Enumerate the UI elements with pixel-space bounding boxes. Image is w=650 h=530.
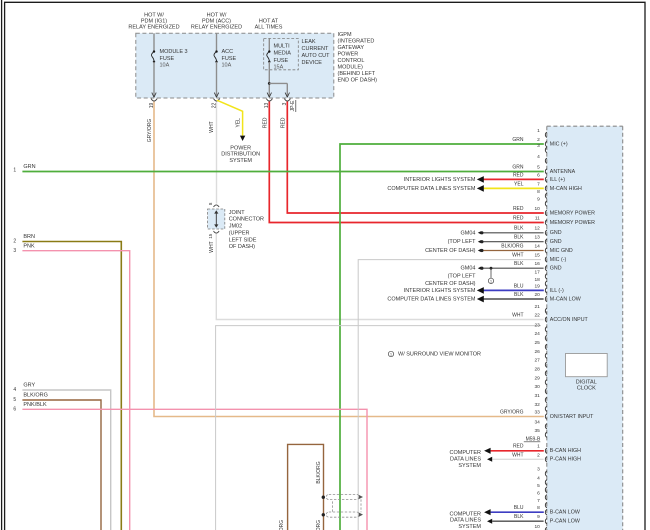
svg-text:MIC GND: MIC GND [550, 248, 573, 254]
svg-text:MODULE): MODULE) [338, 64, 364, 70]
svg-text:(TOP LEFT: (TOP LEFT [448, 273, 477, 279]
svg-text:30: 30 [534, 384, 540, 390]
wire YEL branch to POWER DISTRIBUTION SYSTEM [217, 100, 245, 141]
svg-text:GATEWAY: GATEWAY [338, 45, 365, 51]
svg-text:PNK/BLK: PNK/BLK [23, 402, 47, 408]
connector M59-B pin 8 [514, 505, 580, 515]
svg-text:GND: GND [550, 239, 562, 245]
svg-text:8: 8 [208, 202, 213, 205]
connector M59-B pin 4 [537, 475, 547, 485]
svg-text:32: 32 [534, 402, 540, 408]
connector bracket fuse box pin 22 [214, 99, 220, 101]
svg-text:MULTI: MULTI [274, 44, 291, 50]
connector M59-A pin 25 [534, 340, 546, 350]
connector M59-A pin 20 [514, 292, 581, 303]
connector M59-B pin 3 [537, 467, 547, 477]
svg-text:DATA LINES: DATA LINES [450, 456, 481, 462]
connector M59-A pin 16 [514, 261, 562, 272]
option box 2 [216, 326, 541, 530]
label GM04 (pin 12) [461, 230, 476, 236]
IGPM fuse box U1 [136, 33, 334, 98]
svg-text:BLU: BLU [514, 283, 524, 289]
svg-text:31: 31 [534, 393, 540, 399]
connector name M59-B [524, 436, 541, 442]
wire GRY/ORG from fuse 19 to pin 33 ON/START INPUT [154, 102, 544, 417]
label YEL rotated [236, 118, 242, 128]
svg-text:YEL: YEL [236, 118, 242, 128]
pin number 22 [211, 103, 217, 109]
svg-text:RED: RED [513, 444, 524, 450]
svg-text:GND: GND [550, 266, 562, 272]
svg-text:RELAY ENERGIZED: RELAY ENERGIZED [191, 24, 242, 30]
svg-text:BLK: BLK [514, 235, 524, 241]
svg-text:BLK/ORG: BLK/ORG [23, 393, 47, 399]
svg-text:LEAK: LEAK [302, 39, 316, 45]
connector M59-A pin 35 [534, 428, 546, 438]
svg-text:POWER: POWER [338, 51, 359, 57]
svg-text:5: 5 [537, 164, 540, 170]
wire BLK GND pin 12 to GM04 [478, 231, 544, 234]
svg-text:4: 4 [537, 154, 540, 160]
svg-text:4: 4 [13, 387, 16, 393]
svg-text:ACC: ACC [222, 49, 234, 55]
svg-text:7: 7 [537, 498, 540, 504]
svg-text:22: 22 [534, 312, 540, 318]
connector M59-A pin 10 [513, 206, 595, 217]
connector M59-A pin 30 [534, 384, 546, 394]
shield symbol lower [322, 512, 363, 517]
svg-text:M-CAN LOW: M-CAN LOW [550, 296, 581, 302]
label RED rotated (pin 13 wire) [262, 117, 268, 128]
wire RED from fuse 13 to pin 11 MEMORY POWER [269, 102, 544, 223]
fuse ACC FUSE 10A [214, 33, 237, 97]
svg-text:IGPM: IGPM [338, 32, 352, 38]
wire 2 BRN [22, 242, 121, 530]
svg-text:6: 6 [537, 172, 540, 178]
label CENTER OF DASH) (pin 14) [425, 248, 476, 254]
connector M59-A pin 27 [534, 358, 546, 368]
wire BLU B-CAN LOW to computer data lines system [484, 509, 544, 515]
svg-text:GRY/ORG: GRY/ORG [147, 119, 153, 143]
fuse MODULE 3 FUSE 10A [151, 33, 187, 97]
label JOINT CONNECTOR JM02 (UPPER LEFT SIDE OF DASH) [229, 210, 264, 250]
wire YEL M-CAN HIGH to computer data lines system [477, 185, 544, 192]
connector M59-A pin 17 [534, 269, 546, 279]
svg-text:GM04: GM04 [461, 266, 476, 272]
connector M59-A pin 6 [513, 172, 565, 183]
svg-text:WHT: WHT [512, 312, 523, 318]
svg-text:8: 8 [537, 189, 540, 195]
connector M59-A pin 14 [501, 243, 573, 254]
JM02 pin 8 [208, 202, 213, 205]
JM02 bottom connector arc [214, 231, 220, 233]
svg-text:GRY: GRY [23, 383, 35, 389]
connector M59-A pin 1 [537, 128, 547, 138]
svg-text:19: 19 [534, 283, 540, 289]
connector M59-A pin 5 [512, 164, 575, 175]
connector M59-A pin 28 [534, 366, 546, 376]
svg-text:CONTROL: CONTROL [338, 58, 365, 64]
wire 6 PNK/BLK [22, 409, 367, 530]
shield drain dashed link right [360, 499, 362, 512]
svg-text:DATA LINES: DATA LINES [450, 518, 481, 524]
svg-text:DISTRIBUTION: DISTRIBUTION [221, 152, 260, 158]
label BLK/ORG (left) [23, 393, 47, 399]
svg-text:DEVICE: DEVICE [302, 60, 323, 66]
note 1 W/ SURROUND VIEW MONITOR [388, 351, 481, 357]
svg-text:27: 27 [534, 358, 540, 364]
wire branch from MULTI MEDIA fuse to pin 3 [268, 82, 290, 97]
svg-text:SYSTEM: SYSTEM [229, 158, 252, 164]
svg-text:WHT: WHT [512, 252, 523, 258]
label COMPUTER DATA LINES SYSTEM (pin 20) [387, 296, 476, 302]
connector bracket fuse box pin 3 [284, 99, 290, 101]
label GRY/ORG rotated [147, 119, 153, 143]
svg-text:GRN: GRN [23, 164, 35, 170]
connector M59-A pin 32 [534, 402, 546, 412]
connector M59-B pin 5 [537, 483, 547, 493]
entry number 4 [13, 387, 16, 393]
svg-text:JOINT: JOINT [229, 210, 246, 216]
label (TOP LEFT (pin 13) [448, 239, 477, 245]
connector name JP-E [290, 100, 296, 112]
connector M59-A pin 18 [534, 277, 546, 287]
connector M59-A pin 19 [514, 283, 564, 294]
connector M59-B pin 7 [537, 498, 547, 508]
svg-text:18: 18 [534, 277, 540, 283]
JM02 pin 15 [208, 233, 213, 239]
svg-text:DIGITAL: DIGITAL [576, 379, 597, 385]
connector M59-A pin 3 [537, 143, 547, 153]
svg-text:GRY/ORG: GRY/ORG [500, 409, 524, 415]
svg-text:CURRENT: CURRENT [302, 46, 330, 52]
entry number 5 [13, 397, 16, 403]
wire WHT from JM02 to pin 22 ACC/ON INPUT [216, 234, 543, 320]
connector M59-A pin 22 [512, 312, 588, 323]
connector M59-A pin 11 [513, 215, 595, 226]
connector M59-A pin 12 [514, 226, 562, 237]
svg-text:COMPUTER DATA LINES SYSTEM: COMPUTER DATA LINES SYSTEM [387, 296, 476, 302]
svg-text:GM04: GM04 [461, 230, 476, 236]
connector M59-A pin 7 [514, 181, 582, 192]
svg-text:MEDIA: MEDIA [274, 51, 292, 57]
connector M59-B pin 9 [514, 514, 580, 524]
svg-text:W/ SURROUND VIEW MONITOR: W/ SURROUND VIEW MONITOR [398, 351, 481, 357]
label BLK/ORG rotated bottom left [279, 520, 285, 530]
svg-text:OF DASH): OF DASH) [229, 244, 255, 250]
svg-text:(BEHIND LEFT: (BEHIND LEFT [338, 71, 376, 77]
svg-text:(UPPER: (UPPER [229, 230, 250, 236]
svg-text:CLOCK: CLOCK [577, 386, 596, 392]
svg-text:2: 2 [537, 452, 540, 458]
svg-text:BRN: BRN [23, 234, 35, 240]
svg-text:16: 16 [534, 261, 540, 267]
entry number 1 [13, 168, 16, 174]
svg-text:RED: RED [513, 215, 524, 221]
svg-text:14: 14 [534, 243, 540, 249]
svg-text:JM02: JM02 [229, 224, 242, 230]
svg-text:GND: GND [550, 230, 562, 236]
svg-text:21: 21 [534, 304, 540, 310]
connector M59-A pin 15 [512, 252, 566, 263]
label (TOP LEFT (pin 16) [448, 273, 477, 279]
svg-text:ILL (+): ILL (+) [550, 177, 565, 183]
svg-text:BLK: BLK [514, 226, 524, 232]
wire GRN MIC (+) vertical to microphone [340, 144, 544, 530]
svg-text:5: 5 [13, 397, 16, 403]
head unit connector box [547, 126, 623, 530]
connector M59-A pin 4 [537, 154, 547, 164]
label LEAK CURRENT AUTO CUT DEVICE [302, 39, 331, 66]
svg-text:B-CAN HIGH: B-CAN HIGH [550, 448, 581, 454]
connector bracket fuse box pin 13 [266, 99, 272, 101]
svg-text:RED: RED [280, 117, 286, 128]
svg-text:11: 11 [535, 215, 540, 221]
label WHT rotated (lower) [209, 241, 215, 252]
wire BLK GND pin 16 to GM04 [478, 267, 544, 270]
joint connector JM02 [208, 209, 225, 229]
connector M59-B pin 6 [537, 490, 547, 500]
svg-text:P-CAN LOW: P-CAN LOW [550, 519, 580, 525]
connector M59-A pin 24 [534, 331, 546, 341]
svg-text:5: 5 [537, 483, 540, 489]
pin number 3 [282, 102, 288, 105]
svg-text:2: 2 [13, 239, 16, 245]
wire RED ILL (+) to interior lights system [477, 176, 544, 183]
svg-text:JP-E: JP-E [290, 100, 296, 112]
svg-text:FUSE: FUSE [222, 56, 237, 62]
svg-text:POWER: POWER [230, 145, 251, 151]
svg-text:ALL TIMES: ALL TIMES [255, 24, 283, 30]
label WHT rotated (upper) [209, 121, 215, 132]
svg-text:CONNECTOR: CONNECTOR [229, 217, 264, 223]
wire BLK M-CAN LOW to computer data lines system [477, 296, 544, 303]
pin number 19 [149, 103, 155, 109]
svg-text:1: 1 [13, 168, 16, 174]
svg-text:6: 6 [13, 406, 16, 412]
svg-text:WHT: WHT [209, 241, 215, 252]
label GM04 (pin 16) [461, 266, 476, 272]
wire 4 GRY [22, 390, 110, 530]
svg-text:CENTER OF DASH): CENTER OF DASH) [425, 281, 476, 287]
svg-text:3: 3 [537, 467, 540, 473]
connector M59-A pin 13 [514, 235, 562, 246]
connector M59-A pin 33 [500, 409, 594, 420]
svg-text:FUSE: FUSE [274, 58, 289, 64]
svg-text:17: 17 [534, 269, 540, 275]
svg-text:15: 15 [208, 233, 213, 239]
connector M59-B pin 2 [512, 452, 581, 462]
svg-text:34: 34 [534, 419, 540, 425]
label CENTER OF DASH) (pin 16) [425, 281, 476, 287]
svg-text:GRN: GRN [512, 164, 524, 170]
shield drain dashed link left [332, 501, 334, 512]
label GRN (left) [23, 164, 35, 170]
svg-text:8: 8 [537, 505, 540, 511]
svg-text:1: 1 [537, 444, 540, 450]
svg-text:END OF DASH): END OF DASH) [338, 77, 378, 83]
digital clock [566, 354, 608, 392]
svg-text:ANTENNA: ANTENNA [550, 169, 576, 175]
svg-text:23: 23 [534, 322, 540, 328]
svg-text:BLK: BLK [514, 261, 524, 267]
JM02 top connector arc [214, 205, 220, 207]
wire BLU ILL (-) to interior lights system [477, 287, 544, 294]
svg-text:YEL: YEL [514, 181, 524, 187]
label BRN (left) [23, 234, 35, 240]
svg-text:GRN: GRN [512, 137, 524, 143]
wire BLK/ORG microphone shield routing [288, 444, 324, 530]
wire BLK/ORG MIC GND pin 14 [478, 249, 544, 252]
svg-text:7: 7 [537, 181, 540, 187]
svg-text:26: 26 [534, 349, 540, 355]
svg-text:COMPUTER: COMPUTER [450, 450, 482, 456]
connector M59-A pin 2 [512, 137, 567, 148]
wire BLK P-CAN LOW to computer data lines system [487, 519, 544, 524]
connector bracket fuse box pin 19 [151, 99, 157, 101]
svg-text:PNK: PNK [23, 243, 35, 249]
svg-text:BLK: BLK [514, 292, 524, 298]
svg-text:M59-B: M59-B [526, 436, 541, 442]
svg-text:33: 33 [534, 409, 540, 415]
svg-text:BLK/ORG: BLK/ORG [501, 243, 523, 249]
wire RED B-CAN HIGH to computer data lines system [484, 448, 544, 454]
svg-text:WHT: WHT [209, 121, 215, 132]
svg-text:12: 12 [534, 226, 540, 232]
connector M59-A pin 8 [537, 189, 547, 199]
svg-text:MIC (+): MIC (+) [550, 141, 568, 147]
svg-text:LEFT SIDE: LEFT SIDE [229, 237, 257, 243]
svg-text:P-CAN HIGH: P-CAN HIGH [550, 457, 581, 463]
svg-text:SYSTEM: SYSTEM [458, 524, 481, 530]
svg-text:RELAY ENERGIZED: RELAY ENERGIZED [128, 24, 179, 30]
shield symbol upper [322, 494, 363, 499]
svg-text:1: 1 [390, 352, 392, 356]
svg-text:INTERIOR LIGHTS SYSTEM: INTERIOR LIGHTS SYSTEM [404, 177, 476, 183]
svg-text:B-CAN LOW: B-CAN LOW [550, 510, 580, 516]
header HOT W/ PDM (ACC) RELAY ENERGIZED [191, 12, 242, 30]
svg-text:1: 1 [537, 128, 540, 134]
svg-text:MODULE 3: MODULE 3 [160, 49, 188, 55]
label POWER DISTRIBUTION SYSTEM [221, 145, 260, 164]
wire 1 GRN to pin 5 ANTENNA [22, 171, 543, 173]
svg-text:10A: 10A [222, 63, 232, 69]
label BLK/ORG rotated (mic) [316, 461, 322, 483]
svg-text:3: 3 [537, 143, 540, 149]
connector M59-A pin 26 [534, 349, 546, 359]
svg-text:MIC (-): MIC (-) [550, 257, 567, 263]
label INTERIOR LIGHTS SYSTEM (pin 19) [404, 288, 476, 294]
svg-text:4: 4 [537, 475, 540, 481]
svg-text:COMPUTER: COMPUTER [450, 511, 482, 517]
wire 5 BLK/ORG [22, 400, 101, 530]
svg-text:MEMORY POWER: MEMORY POWER [550, 210, 595, 216]
svg-text:MEMORY POWER: MEMORY POWER [550, 220, 595, 226]
svg-text:9: 9 [537, 197, 540, 203]
svg-text:10: 10 [534, 206, 540, 212]
header HOT W/ PDM (IG1) RELAY ENERGIZED [128, 12, 179, 30]
entry number 3 [13, 248, 16, 254]
svg-text:BLK: BLK [514, 514, 524, 520]
wire RED from JP-E 3 to pin 10 MEMORY POWER [287, 102, 544, 214]
svg-text:6: 6 [537, 490, 540, 496]
svg-text:2: 2 [537, 137, 540, 143]
entry number 6 [13, 406, 16, 412]
label RED rotated (JP-E wire) [280, 117, 286, 128]
svg-text:3: 3 [13, 248, 16, 254]
svg-text:15A: 15A [274, 64, 284, 70]
page border outer line [1, 0, 3, 530]
svg-text:13: 13 [534, 235, 540, 241]
connector M59-B pin 1 [513, 444, 581, 455]
svg-text:24: 24 [534, 331, 540, 337]
svg-text:35: 35 [534, 428, 540, 434]
connector M59-A pin 9 [537, 197, 547, 207]
connector M59-A pin 21 [534, 304, 546, 314]
wire WHT P-CAN HIGH to computer data lines system [487, 457, 544, 462]
svg-text:29: 29 [534, 375, 540, 381]
option box 1 (surround view monitor) [358, 260, 541, 530]
label COMPUTER DATA LINES SYSTEM (M59-B 8/9) [450, 511, 482, 530]
label PNK/BLK (left) [23, 402, 47, 408]
svg-text:BLU: BLU [514, 505, 524, 511]
svg-text:COMPUTER DATA LINES SYSTEM: COMPUTER DATA LINES SYSTEM [387, 186, 476, 192]
label COMPUTER DATA LINES SYSTEM (pin 7) [387, 186, 476, 192]
svg-text:BLK/ORG: BLK/ORG [316, 461, 322, 483]
note flag 1 on pin 16 wire [488, 267, 493, 284]
wire 3 PNK [22, 251, 129, 530]
label GRY (left) [23, 383, 35, 389]
svg-text:15: 15 [534, 252, 540, 258]
svg-text:AUTO CUT: AUTO CUT [302, 53, 331, 59]
connector M59-A pin 34 [534, 419, 546, 429]
svg-text:BLK/ORG: BLK/ORG [316, 520, 322, 530]
svg-text:FUSE: FUSE [160, 56, 175, 62]
svg-text:(INTEGRATED: (INTEGRATED [338, 38, 375, 44]
svg-text:9: 9 [537, 514, 540, 520]
svg-text:CENTER OF DASH): CENTER OF DASH) [425, 248, 476, 254]
svg-text:(TOP LEFT: (TOP LEFT [448, 239, 477, 245]
svg-text:28: 28 [534, 366, 540, 372]
svg-text:SYSTEM: SYSTEM [458, 463, 481, 469]
svg-text:ILL (-): ILL (-) [550, 288, 564, 294]
label IGPM (INTEGRATED GATEWAY POWER CONTROL MODULE) (BEHIND LEFT END OF DASH) [338, 32, 378, 84]
label COMPUTER DATA LINES SYSTEM (M59-B 1/2) [450, 450, 482, 469]
leak current auto cut device box [264, 38, 299, 69]
connector M59-A pin 23 [534, 322, 546, 332]
label BLK/ORG rotated bottom right [316, 520, 322, 530]
svg-text:ON/START INPUT: ON/START INPUT [550, 414, 594, 420]
svg-text:RED: RED [513, 206, 524, 212]
svg-text:WHT: WHT [512, 452, 523, 458]
svg-text:20: 20 [534, 292, 540, 298]
connector M59-B pin 10 [534, 524, 546, 530]
svg-text:BLK/ORG: BLK/ORG [279, 520, 285, 530]
pin number 13 [264, 103, 270, 109]
entry number 2 [13, 239, 16, 245]
svg-text:M-CAN HIGH: M-CAN HIGH [550, 186, 582, 192]
wire BLK GND pin 13 to GM04 [478, 240, 544, 243]
svg-text:INTERIOR LIGHTS SYSTEM: INTERIOR LIGHTS SYSTEM [404, 288, 476, 294]
svg-text:10A: 10A [160, 63, 170, 69]
label INTERIOR LIGHTS SYSTEM (pin 6) [404, 177, 476, 183]
label PNK (left) [23, 243, 35, 249]
svg-text:ACC/ON INPUT: ACC/ON INPUT [550, 317, 589, 323]
wire WHT from fuse 22 to JM02 [216, 102, 218, 204]
svg-text:10: 10 [534, 524, 540, 530]
fuse MULTI MEDIA FUSE 15A [267, 38, 291, 97]
connector M59-A pin 31 [534, 393, 546, 403]
